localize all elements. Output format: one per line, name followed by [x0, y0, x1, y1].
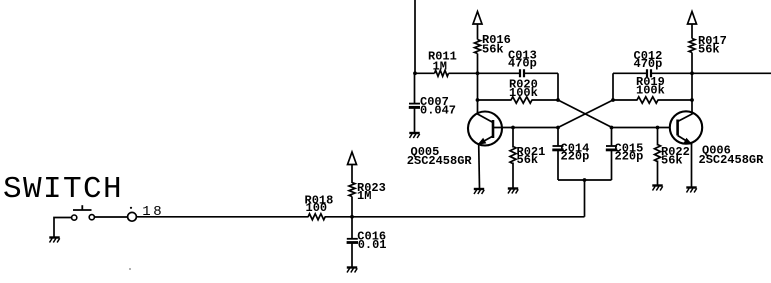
resistor R018: [305, 194, 334, 220]
power arrow above R023: [348, 152, 357, 165]
wire: Q005 emitter to ground: [478, 144, 481, 189]
wire: R018 right lead to R023 junction: [325, 216, 352, 218]
junction: cross node left-top: [556, 98, 560, 102]
wire: R021 bottom lead to ground: [512, 163, 514, 189]
wire: power stem to R017: [691, 24, 693, 39]
junction: R021 top: [511, 126, 515, 130]
svg-text:56k: 56k: [517, 153, 539, 167]
power arrow above R016: [473, 12, 482, 25]
svg-text:SWITCH: SWITCH: [3, 172, 123, 207]
wire: Q005 base lead: [493, 127, 558, 129]
svg-text:470p: 470p: [508, 57, 537, 71]
svg-text:1M: 1M: [357, 189, 371, 203]
resistor R023: [349, 181, 386, 203]
svg-text:56k: 56k: [661, 154, 683, 168]
capacitor C013: [478, 49, 559, 78]
wire: R020 left lead: [478, 99, 512, 101]
resistor R011: [428, 50, 457, 77]
capacitor C007: [409, 73, 456, 132]
wire: power stem to R016: [477, 24, 479, 40]
resistor R019: [636, 75, 665, 103]
junction: C014 top / diagonal: [556, 126, 560, 130]
wire: node 18 to R018: [137, 216, 309, 218]
wire: R022 top lead: [657, 128, 659, 146]
capacitor C012: [613, 49, 692, 77]
svg-text:56k: 56k: [698, 43, 720, 57]
wire: switch right terminal to node 18: [95, 216, 128, 218]
svg-text:470p: 470p: [634, 57, 663, 71]
wire: R023 bottom lead to junction: [351, 197, 353, 217]
svg-text:220p: 220p: [561, 150, 590, 164]
wire: trigger rail joining C014 and C015 bottoms: [558, 179, 612, 181]
junction: R022 top on Q006 base line: [656, 126, 660, 130]
wire: diagonal cross coupling Q006 collector to Q005 base: [558, 100, 613, 128]
ground below R022: [652, 186, 662, 191]
resistor R017: [689, 34, 727, 57]
resistor R022: [655, 145, 690, 168]
junction: Q005 collector node at R020: [476, 98, 480, 102]
svg-text:2SC2458GR: 2SC2458GR: [699, 153, 765, 167]
label SWITCH: [3, 172, 123, 207]
node 18 connector circle: [128, 204, 165, 221]
wire: R019 left lead: [613, 99, 638, 101]
ground at Q006 emitter: [686, 188, 696, 193]
wire: collector bus to right edge: [692, 72, 771, 74]
junction: Q006 collector at R019: [690, 98, 694, 102]
wire: junction to trigger rail riser: [352, 216, 585, 218]
ground at switch: [49, 238, 59, 243]
junction: Q006 collector node top: [690, 71, 694, 75]
wire: R011 right lead to Q005 collector node: [449, 72, 478, 74]
wire: R011 left lead: [415, 72, 435, 74]
ground below R021: [508, 189, 518, 194]
wire: R017 bottom lead to Q006 collector node: [691, 53, 693, 74]
node A junction at R011 left: [413, 71, 417, 75]
capacitor C016: [347, 217, 387, 267]
wire: R019 right lead: [658, 99, 693, 101]
svg-text:0.047: 0.047: [420, 104, 456, 118]
wire: switch left terminal to ground: [54, 218, 72, 238]
wire: power stem to R023: [351, 165, 353, 184]
wire: R020 right lead: [532, 99, 559, 101]
ground below C007: [409, 133, 419, 138]
transistor Q005: [407, 100, 502, 168]
svg-text:100k: 100k: [509, 86, 538, 100]
wire: Q006 collector node down to R019 rail: [691, 73, 693, 100]
wire: R022 bottom lead to ground: [657, 161, 659, 186]
wire: C013 right end down to R020 right end: [557, 73, 559, 100]
capacitor C015: [606, 128, 644, 181]
svg-text:100: 100: [306, 201, 328, 215]
wire: Q006 base lead: [612, 127, 678, 129]
junction: trigger node at R023/C016: [350, 215, 354, 219]
wire: diagonal cross coupling Q005 collector to Q006 base: [558, 100, 612, 128]
power arrow above R017: [688, 12, 697, 25]
svg-text:220p: 220p: [615, 150, 644, 164]
svg-text:1M: 1M: [433, 59, 447, 73]
svg-text:56k: 56k: [482, 42, 504, 56]
wire: R016 bottom lead to collector node: [477, 54, 479, 74]
wire: R021 top lead: [512, 128, 514, 148]
junction: cross node right-top: [611, 98, 615, 102]
switch S (push button): [72, 205, 95, 220]
resistor R016: [475, 33, 511, 56]
resistor R020: [509, 78, 538, 104]
wire: Q006 emitter to ground: [691, 144, 693, 188]
resistor R021: [510, 145, 545, 167]
junction: C015 top / diagonal: [610, 126, 614, 130]
svg-text:0.01: 0.01: [358, 238, 387, 252]
wire: trigger rail down to switch line: [584, 180, 586, 217]
ground below C016: [347, 268, 357, 273]
svg-text:2SC2458GR: 2SC2458GR: [407, 154, 473, 168]
wire: top-left vertical bus entering from top edge: [414, 0, 416, 73]
transistor Q006: [670, 100, 764, 167]
wire: C012 left end down to R019 left end: [612, 73, 614, 100]
junction: Q005 collector node top: [476, 71, 480, 75]
capacitor C014: [552, 128, 589, 181]
junction: trigger rail center: [583, 178, 587, 182]
wire: collector node down to R020 rail: [477, 73, 479, 100]
ground at Q005 emitter: [474, 189, 484, 194]
speck artifact: [129, 268, 131, 270]
svg-text:100k: 100k: [636, 83, 665, 97]
